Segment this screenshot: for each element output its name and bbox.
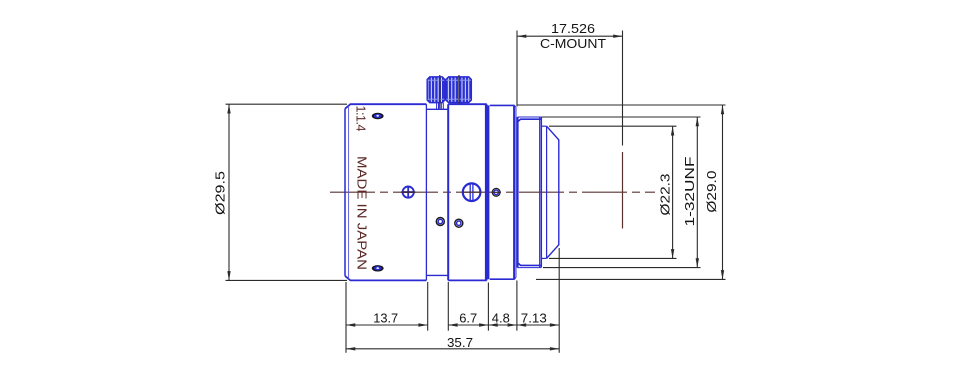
dimension 17.526 extension left	[516, 31, 518, 107]
svg-text:6.7: 6.7	[459, 310, 477, 325]
front barrel	[345, 104, 426, 280]
dimension Ø29.5 extension top	[226, 103, 348, 105]
front screw top (ellipse)	[372, 113, 384, 119]
svg-text:7.13: 7.13	[521, 310, 547, 325]
right extension line 1-32UNF bottom	[543, 267, 701, 269]
dimension 17.526 line	[517, 35, 623, 38]
small circle screw left (below axis)	[436, 218, 444, 226]
dimension Ø29.5 extension bottom	[226, 279, 348, 281]
svg-text:35.7: 35.7	[447, 335, 473, 350]
svg-text:1-32UNF: 1-32UNF	[682, 156, 697, 226]
image plane extension line	[622, 31, 624, 146]
svg-text:1:1.4: 1:1.4	[354, 106, 368, 132]
slotted screw on focus ring	[463, 183, 481, 201]
right extension line Ø22.3 bottom	[549, 257, 677, 259]
dimension 6.7 line	[448, 323, 488, 326]
bottom extension line at 13.7	[427, 282, 429, 331]
right extension line 1-32UNF top	[541, 116, 700, 118]
bottom extension line front face	[345, 282, 347, 353]
rear cap Ø22.3 with chamfer	[541, 126, 559, 258]
left knob neck	[437, 103, 444, 110]
middle narrow ring	[426, 104, 448, 280]
dimension Ø29.5 line	[227, 104, 230, 280]
bottom extension line 6.7/4.8	[487, 283, 489, 331]
small screw on rear ring	[492, 188, 501, 196]
optical axis centerline	[330, 191, 655, 193]
right knob neck	[456, 103, 463, 105]
dimension Ø29.0 line	[721, 105, 724, 279]
dimension 7.13 line	[517, 323, 559, 326]
svg-text:MADE IN JAPAN: MADE IN JAPAN	[355, 156, 369, 270]
front screw bottom (ellipse)	[372, 265, 384, 271]
right knurled knob	[446, 77, 471, 103]
phillips screw on front barrel	[401, 186, 415, 198]
thread undercut collar	[516, 117, 517, 268]
svg-text:Ø22.3: Ø22.3	[658, 174, 673, 216]
svg-text:C-MOUNT: C-MOUNT	[540, 36, 606, 51]
bottom extension line 4.8/7.13	[516, 281, 518, 331]
small circle screw right (below axis)	[455, 219, 463, 227]
image plane centerline cross	[622, 152, 624, 229]
svg-text:17.526: 17.526	[551, 21, 595, 36]
dimension 4.8 line	[488, 323, 517, 326]
right extension line Ø29.0 bottom	[536, 278, 726, 280]
dimension 13.7 line	[346, 323, 428, 326]
right extension line Ø22.3 top	[549, 125, 677, 127]
right knob screw axis	[458, 75, 460, 104]
svg-text:Ø29.0: Ø29.0	[704, 171, 719, 213]
bottom extension line rear face	[558, 248, 560, 353]
bottom extension line at start 6.7	[447, 282, 449, 331]
dimension 1-32UNF line	[696, 117, 699, 268]
right extension line Ø29.0 top	[517, 104, 726, 106]
left knurled knob	[427, 77, 445, 103]
svg-text:Ø29.5: Ø29.5	[213, 171, 228, 215]
focus ring (6.7)	[448, 104, 488, 280]
C-mount thread section	[518, 117, 542, 268]
rear ring (4.8, Ø29.0)	[490, 105, 516, 279]
svg-text:13.7: 13.7	[373, 310, 398, 325]
dimension 35.7 line	[346, 347, 559, 350]
left knob screw axis	[439, 75, 441, 109]
dimension Ø22.3 line	[671, 126, 674, 258]
svg-text:4.8: 4.8	[492, 310, 510, 325]
